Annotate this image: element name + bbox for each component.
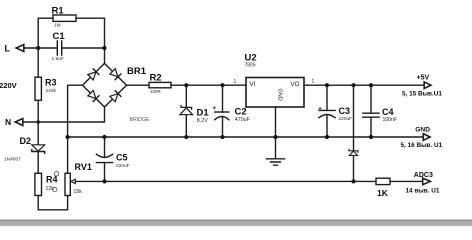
svg-text:L: L <box>5 44 11 54</box>
resistor 1K <box>376 178 390 184</box>
wire L line right of C1 <box>62 47 105 49</box>
capacitor C1 <box>57 41 61 55</box>
svg-text:15k: 15k <box>74 189 83 195</box>
svg-text:R2: R2 <box>150 73 162 84</box>
svg-text:+: + <box>318 105 322 112</box>
wire R4 bottom U-shape to RV1 bottom <box>38 196 67 210</box>
svg-text:+: + <box>212 105 216 112</box>
wire U2 gnd pin to rail and ground symbol <box>275 107 277 159</box>
wire R2 to U2 VI <box>171 84 246 86</box>
svg-text:VI: VI <box>250 81 256 88</box>
svg-text:1M: 1M <box>54 23 61 29</box>
svg-text:BRIDGE: BRIDGE <box>130 117 150 123</box>
svg-text:GND: GND <box>415 127 430 134</box>
svg-text:1N4007: 1N4007 <box>4 157 21 163</box>
svg-text:ADC3: ADC3 <box>414 172 433 179</box>
resistor R2 <box>149 82 171 87</box>
diode D2 <box>32 145 45 151</box>
RV1 wiper arrow <box>71 179 76 183</box>
bridge diode bottom-left <box>88 90 99 101</box>
node R1 right / bridge top <box>102 46 106 50</box>
terminal L arrow <box>16 45 24 52</box>
node C4 top <box>369 83 373 87</box>
node R3 bottom N line <box>37 120 40 123</box>
svg-text:D2: D2 <box>20 136 32 146</box>
wire bridge left corner down to ground rail <box>68 85 83 137</box>
svg-text:C1: C1 <box>53 31 66 42</box>
svg-text:220V: 220V <box>0 81 18 90</box>
svg-text:14 выв. U1: 14 выв. U1 <box>406 188 440 195</box>
svg-text:240k: 240k <box>46 88 57 94</box>
svg-text:1K: 1K <box>377 188 389 198</box>
diode D1 zener <box>185 85 187 107</box>
ground <box>267 159 285 165</box>
node C4 bottom <box>369 135 373 139</box>
capacitor C5 <box>104 137 106 157</box>
resistor R1 <box>53 15 76 21</box>
wire RV1 top <box>67 137 69 173</box>
wire N line to bridge bottom <box>23 107 105 122</box>
node U2 gnd rail <box>273 135 277 139</box>
wire U2 VO to +5V terminal <box>304 84 424 86</box>
svg-text:100R: 100R <box>150 89 162 94</box>
node C5 top <box>102 135 106 139</box>
terminal N arrow <box>15 119 23 126</box>
node rail start RV1 <box>66 135 70 139</box>
node D1 top <box>184 83 188 87</box>
capacitor C4 <box>370 85 372 113</box>
wire D2 to R4 <box>37 152 39 174</box>
wire bridge right to R2 <box>127 84 150 86</box>
node L/C1 rail <box>36 46 40 50</box>
svg-text:7805: 7805 <box>245 62 256 68</box>
svg-text:1.5uF: 1.5uF <box>52 56 64 62</box>
resistor R3 <box>35 77 41 100</box>
bridge BR1 diamond <box>83 63 127 107</box>
wire 1K to ADC3 terminal <box>390 180 423 182</box>
node C3 top <box>325 83 329 87</box>
svg-text:C5: C5 <box>116 153 128 163</box>
svg-text:R3: R3 <box>45 78 57 88</box>
bridge diode top-left <box>88 69 99 80</box>
svg-text:C2: C2 <box>235 107 247 118</box>
svg-text:1: 1 <box>234 79 237 85</box>
svg-text:220uF: 220uF <box>116 163 130 169</box>
svg-text:220uF: 220uF <box>339 116 353 122</box>
svg-text:1: 1 <box>312 79 315 85</box>
node zener top <box>351 83 355 87</box>
svg-text:5, 15 Выв.U1: 5, 15 Выв.U1 <box>402 90 442 97</box>
svg-text:5, 16 Выв. U1: 5, 16 Выв. U1 <box>401 142 443 149</box>
terminal GND arrow <box>423 134 430 141</box>
node zener bottom <box>351 179 355 183</box>
zener diode D3 branch <box>353 85 355 151</box>
window grey bar bottom <box>0 220 472 226</box>
svg-text:8.2V: 8.2V <box>197 118 208 124</box>
resistor R4 <box>35 173 42 195</box>
wire R1 top left segment <box>38 18 53 48</box>
node D1 bottom <box>184 135 188 139</box>
svg-text:R1: R1 <box>52 6 65 17</box>
svg-text:GND: GND <box>277 89 283 101</box>
node C2 bottom <box>220 135 224 139</box>
svg-text:C4: C4 <box>382 107 394 117</box>
node C2 top <box>220 83 224 87</box>
capacitor C2 <box>222 85 224 112</box>
wire L line left of C1 <box>24 47 57 49</box>
capacitor C3 <box>326 85 328 110</box>
svg-text:100nF: 100nF <box>383 117 398 123</box>
svg-text:BR1: BR1 <box>127 66 147 77</box>
ground rail <box>68 136 424 138</box>
svg-text:470uF: 470uF <box>235 117 251 123</box>
terminal +5V arrow <box>424 82 431 89</box>
wire R3 bottom to N line and D2 <box>37 100 39 145</box>
wire left rail to R3 <box>37 48 39 77</box>
svg-text:C3: C3 <box>339 106 351 116</box>
node C3 bottom <box>325 135 329 139</box>
terminal ADC3 arrow <box>423 178 431 185</box>
bridge diode bottom-right <box>110 91 121 102</box>
wire R1 right segment down to bridge top <box>76 18 105 63</box>
node C5 bottom <box>102 179 106 183</box>
svg-text:VO: VO <box>291 81 300 88</box>
wire wiper to ADC3 line <box>75 180 376 182</box>
svg-text:RV1: RV1 <box>75 162 92 172</box>
potentiometer RV1 <box>65 173 70 195</box>
bridge diode top-right <box>110 69 121 80</box>
svg-text:+5V: +5V <box>417 75 430 82</box>
svg-text:N: N <box>5 117 11 127</box>
regulator U2 <box>246 78 304 108</box>
